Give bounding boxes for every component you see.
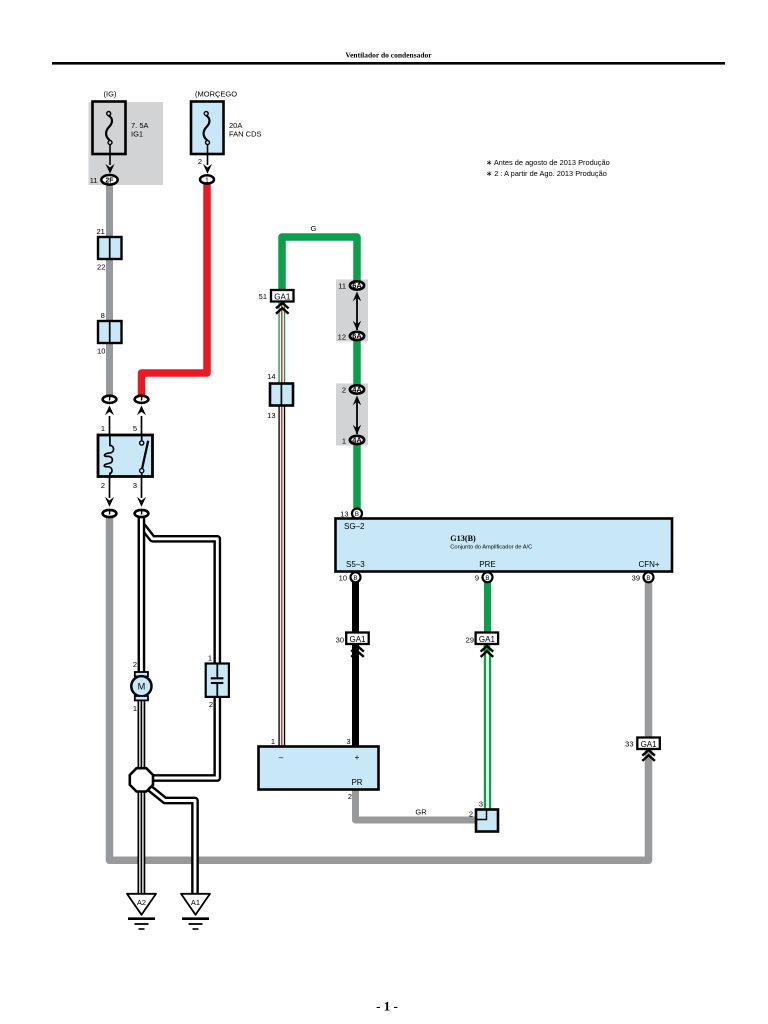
svg-text:G: G (311, 224, 317, 233)
svg-text:11: 11 (338, 282, 346, 291)
svg-text:2: 2 (101, 481, 105, 490)
svg-text:2: 2 (209, 700, 213, 709)
svg-text:+: + (355, 753, 360, 762)
svg-text:B: B (485, 575, 489, 582)
svg-text:CFN+: CFN+ (638, 560, 659, 569)
svg-text:FAN CDS: FAN CDS (229, 130, 262, 139)
svg-text:(IG): (IG) (104, 90, 117, 99)
svg-text:10: 10 (339, 574, 347, 583)
svg-text:SG–2: SG–2 (344, 522, 365, 531)
svg-text:–: – (279, 753, 284, 762)
svg-text:6A: 6A (352, 281, 362, 290)
svg-text:39: 39 (632, 574, 640, 583)
svg-text:13: 13 (340, 509, 348, 518)
svg-text:1: 1 (133, 704, 137, 713)
svg-text:1: 1 (208, 654, 212, 663)
svg-text:B: B (355, 511, 359, 518)
svg-text:2: 2 (133, 660, 137, 669)
svg-text:30: 30 (336, 636, 344, 645)
svg-text:33: 33 (625, 740, 633, 749)
svg-text:M: M (138, 681, 146, 691)
svg-text:A1: A1 (191, 898, 200, 907)
svg-text:5: 5 (133, 424, 137, 433)
svg-text:GA1: GA1 (349, 635, 366, 644)
svg-text:29: 29 (466, 636, 474, 645)
svg-text:4A: 4A (352, 385, 362, 394)
svg-text:GA1: GA1 (274, 292, 291, 301)
svg-text:A2: A2 (137, 898, 146, 907)
svg-text:2: 2 (342, 386, 346, 395)
svg-text:8: 8 (101, 311, 105, 320)
svg-text:21: 21 (96, 227, 104, 236)
svg-text:1: 1 (342, 437, 346, 446)
svg-text:B: B (646, 575, 650, 582)
svg-text:S5–3: S5–3 (346, 560, 365, 569)
svg-text:3: 3 (479, 800, 483, 809)
svg-text:9: 9 (475, 574, 479, 583)
svg-text:∗ Antes de agosto de 2013 Prod: ∗ Antes de agosto de 2013 Produção (486, 158, 610, 167)
svg-text:2F: 2F (105, 177, 114, 184)
svg-text:B: B (353, 575, 357, 582)
svg-text:(MORÇEGO: (MORÇEGO (195, 90, 237, 99)
svg-text:2: 2 (198, 157, 202, 166)
svg-text:IG1: IG1 (131, 130, 143, 139)
svg-text:51: 51 (259, 292, 267, 301)
svg-text:14: 14 (267, 372, 275, 381)
svg-text:∗ 2 : A partir de Ago. 2013 Pr: ∗ 2 : A partir de Ago. 2013 Produção (486, 169, 607, 178)
svg-text:2: 2 (348, 792, 352, 801)
svg-text:Conjunto do Amplificador de A/: Conjunto do Amplificador de A/C (450, 544, 532, 550)
svg-text:1: 1 (271, 737, 275, 746)
svg-text:GA1: GA1 (479, 635, 496, 644)
svg-text:13: 13 (267, 411, 275, 420)
svg-text:2: 2 (469, 810, 473, 819)
svg-text:1: 1 (101, 424, 105, 433)
svg-text:G13(B): G13(B) (450, 534, 476, 543)
svg-text:PR: PR (351, 778, 362, 787)
svg-text:GA1: GA1 (641, 740, 658, 749)
svg-text:PRE: PRE (479, 560, 495, 569)
svg-text:4A: 4A (352, 436, 362, 445)
svg-text:22: 22 (97, 263, 105, 272)
svg-text:Ventilador do condensador: Ventilador do condensador (345, 51, 432, 60)
svg-text:10: 10 (97, 347, 105, 356)
svg-text:3: 3 (346, 737, 350, 746)
svg-text:GR: GR (415, 808, 427, 817)
svg-text:3: 3 (133, 481, 137, 490)
svg-text:- 1 -: - 1 - (376, 999, 398, 1014)
svg-text:1: 1 (205, 177, 209, 184)
svg-text:11: 11 (90, 176, 98, 185)
svg-text:12: 12 (338, 333, 346, 342)
svg-text:6A: 6A (352, 332, 362, 341)
